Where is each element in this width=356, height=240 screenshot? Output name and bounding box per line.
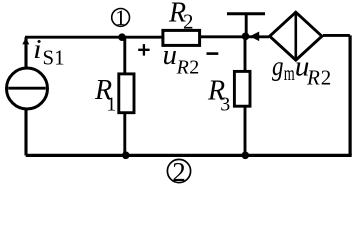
svg-text:2: 2 <box>321 66 332 90</box>
svg-text:1: 1 <box>115 5 126 30</box>
svg-text:m: m <box>284 61 295 85</box>
svg-text:i: i <box>33 34 42 64</box>
svg-text:R: R <box>306 65 320 89</box>
svg-text:u: u <box>163 39 178 71</box>
svg-text:2: 2 <box>189 57 199 79</box>
svg-text:2: 2 <box>183 10 194 34</box>
svg-text:3: 3 <box>220 93 230 115</box>
svg-text:1: 1 <box>106 94 116 116</box>
svg-text:2: 2 <box>172 157 186 186</box>
svg-text:S1: S1 <box>43 46 65 70</box>
svg-text:g: g <box>272 51 284 81</box>
svg-text:R: R <box>176 57 189 79</box>
